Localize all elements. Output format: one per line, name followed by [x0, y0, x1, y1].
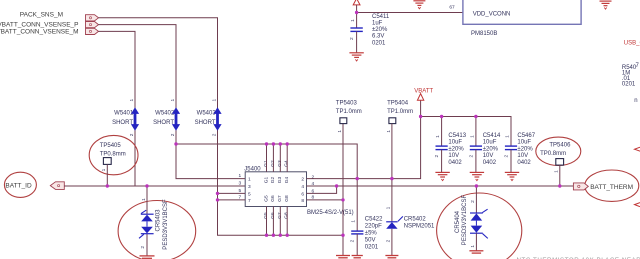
- highlight circle CR5404: [437, 193, 522, 259]
- wire pins 4-6 tie: [307, 186, 337, 193]
- svg-text:5: 5: [248, 191, 251, 197]
- svg-text:2: 2: [470, 200, 476, 203]
- junction C5413 rail: [440, 115, 443, 118]
- highlight circle CR5403: [118, 201, 196, 259]
- svg-text:2: 2: [312, 174, 315, 180]
- svg-text:50V: 50V: [365, 238, 376, 244]
- svg-text:4: 4: [301, 184, 304, 190]
- ground top right (cut): [600, 1, 612, 9]
- svg-text:TP5405: TP5405: [100, 143, 122, 149]
- ground top middle (cut): [413, 1, 425, 9]
- ground under C5467: [505, 172, 519, 180]
- wire J5400 bottom shield pins: [267, 207, 288, 236]
- ground bar under C5422: [352, 256, 363, 258]
- svg-text:1: 1: [469, 135, 475, 138]
- connector tag VBATT_CONN_VSENSE_P: [86, 22, 99, 28]
- svg-text:2: 2: [301, 177, 304, 183]
- svg-text:1: 1: [141, 198, 147, 201]
- junction pin5: [216, 192, 219, 195]
- junction VBATT caps rail: [419, 115, 422, 118]
- junction shield G3 top: [279, 142, 282, 145]
- svg-text:220pF: 220pF: [365, 224, 382, 230]
- junction CR5403 BATT_ID: [145, 184, 148, 187]
- svg-text:BATT_THERM: BATT_THERM: [590, 184, 633, 191]
- junction bus VBATT: [356, 177, 359, 180]
- wire J5400 top shield pins: [267, 144, 288, 172]
- svg-text:±5%: ±5%: [365, 231, 378, 237]
- svg-text:1: 1: [553, 170, 559, 173]
- node VBATT_CONN_VSENSE_P label: [0, 22, 79, 29]
- junction shield G2 top: [272, 142, 275, 145]
- test point TP5404: [386, 101, 413, 133]
- small text n right edge: [634, 98, 637, 104]
- svg-text:1: 1: [211, 99, 217, 102]
- wire TP5403 GND vertical: [342, 124, 344, 256]
- svg-text:0402: 0402: [517, 160, 531, 166]
- svg-text:±20%: ±20%: [517, 146, 533, 152]
- wire PACK_SNS_M to W5403 to GND rail: [99, 18, 344, 235]
- svg-text:2: 2: [349, 37, 355, 40]
- ground under C5414: [470, 172, 484, 180]
- svg-text:VBATT: VBATT: [414, 88, 433, 94]
- node BATT_ID label: [5, 183, 32, 190]
- wire VBATT caps rail: [421, 117, 511, 147]
- J5400 left pin names inside: [248, 177, 251, 204]
- svg-text:0402: 0402: [448, 160, 462, 166]
- junction TP5404 VBATT: [390, 177, 393, 180]
- svg-text:NSPM2051: NSPM2051: [404, 224, 435, 230]
- connector tag BATT_THERM: [573, 183, 588, 190]
- J5400 right pin numbers outside: [312, 174, 315, 200]
- J5400 inside shield names G5 G6 G7 G8: [263, 195, 290, 202]
- svg-text:G7: G7: [277, 195, 283, 202]
- svg-text:7: 7: [248, 198, 251, 204]
- node PACK_SNS_M label: [20, 12, 63, 19]
- svg-text:±20%: ±20%: [483, 146, 499, 152]
- highlight circle TP5406: [536, 137, 581, 165]
- svg-text:10uF: 10uF: [483, 140, 497, 146]
- svg-text:USB_C: USB_C: [624, 41, 640, 47]
- J5400 top shield pin designators G1-G4: [263, 160, 290, 167]
- svg-text:1: 1: [101, 168, 107, 171]
- svg-text:TP5403: TP5403: [336, 101, 358, 107]
- junction CR5404 therm: [475, 184, 478, 187]
- wire BATT_ID to pin 3: [64, 185, 245, 187]
- capacitor C5414: [468, 117, 501, 173]
- svg-text:0201: 0201: [365, 245, 379, 251]
- connector tag VBATT_CONN_VSENSE_M: [86, 28, 99, 34]
- svg-text:1: 1: [385, 206, 391, 209]
- node BATT_ID highlight ellipse: [4, 172, 36, 197]
- svg-text:2: 2: [350, 239, 356, 242]
- junction C5414 rail: [474, 115, 477, 118]
- connector J5400 BM25-4S/2-V(51): [244, 166, 353, 216]
- junction shield G6 rail: [272, 234, 275, 237]
- junction shield G4 top: [286, 142, 289, 145]
- J5400 inside shield names G1 G2 G3 G4: [263, 176, 290, 183]
- wire J5400 pin 7 stub: [218, 199, 246, 201]
- red tag mark right edge upper: [635, 147, 640, 151]
- svg-text:n: n: [634, 98, 637, 104]
- ground under CR5403: [140, 256, 155, 258]
- svg-text:G4: G4: [284, 176, 290, 183]
- svg-text:6: 6: [301, 191, 304, 197]
- svg-text:G1: G1: [263, 176, 269, 183]
- svg-text:6.3V: 6.3V: [372, 34, 384, 40]
- svg-text:10uF: 10uF: [448, 140, 462, 146]
- svg-text:3: 3: [248, 184, 251, 190]
- junction shield G7 rail: [279, 234, 282, 237]
- junction TP5406 therm: [558, 184, 561, 187]
- svg-text:67: 67: [449, 5, 455, 11]
- wire VBATT_CONN_VSENSE_P to W5402 to pin1: [99, 25, 246, 179]
- svg-text:1: 1: [337, 130, 343, 133]
- svg-text:VBATT_CONN_VSENSE_P: VBATT_CONN_VSENSE_P: [0, 22, 79, 29]
- svg-text:0201: 0201: [622, 81, 636, 87]
- svg-text:G2: G2: [270, 176, 276, 183]
- capacitor C5413: [434, 117, 467, 173]
- power symbol VBATT top (cut): [353, 0, 360, 13]
- svg-text:1: 1: [239, 173, 242, 179]
- svg-text:0201: 0201: [372, 40, 386, 46]
- jumper W5402 SHORT: [153, 99, 180, 137]
- svg-text:10uF: 10uF: [517, 140, 531, 146]
- svg-text:C5411: C5411: [372, 14, 390, 20]
- capacitor C5422: [350, 179, 384, 256]
- svg-text:0402: 0402: [483, 160, 497, 166]
- junction TP5405 BATT_ID: [106, 184, 109, 187]
- svg-text:10V: 10V: [448, 153, 459, 159]
- svg-text:BATT_ID: BATT_ID: [5, 183, 32, 190]
- wire J5400 pin 5 stub: [218, 192, 246, 194]
- cut-off gray text at bottom edge: [517, 257, 640, 259]
- svg-text:G3: G3: [277, 176, 283, 183]
- svg-text:CR5402: CR5402: [404, 217, 427, 223]
- svg-text:TP1.0mm: TP1.0mm: [336, 109, 362, 115]
- node BATT_THERM label: [590, 184, 633, 191]
- IC PM8150B box: [463, 0, 581, 37]
- jumper W5403 SHORT: [195, 99, 222, 137]
- ground under C5413: [435, 172, 449, 180]
- wire VDD_VCONN pin 67: [357, 12, 463, 14]
- svg-text:2: 2: [211, 133, 217, 136]
- svg-text:TP0.8mm: TP0.8mm: [540, 151, 566, 157]
- junction shield G5 rail: [265, 234, 268, 237]
- svg-text:W5401: W5401: [114, 111, 134, 117]
- svg-text:2: 2: [140, 246, 146, 249]
- svg-text:1: 1: [470, 245, 476, 248]
- wire VBATT rail pin2: [307, 100, 421, 178]
- svg-text:1: 1: [504, 135, 510, 138]
- svg-text:BM25-4S/2-V(51): BM25-4S/2-V(51): [307, 210, 354, 216]
- junction GND rail: [341, 234, 344, 237]
- svg-text:1: 1: [350, 19, 356, 22]
- svg-text:8: 8: [301, 198, 304, 204]
- J5400 right pin names inside: [301, 177, 304, 204]
- svg-text:CR5404: CR5404: [455, 210, 461, 233]
- svg-text:2: 2: [468, 155, 474, 158]
- node BATT_THERM highlight ellipse: [585, 170, 639, 201]
- svg-text:C5413: C5413: [448, 133, 466, 139]
- svg-text:2: 2: [170, 133, 176, 136]
- svg-text:SHORT: SHORT: [195, 120, 216, 126]
- TVS diode CR5403 PESD3V3V1BCSF: [139, 186, 169, 256]
- svg-text:W5402: W5402: [155, 111, 175, 117]
- test point TP5406: [540, 143, 571, 186]
- highlight circle TP5405: [89, 135, 138, 174]
- svg-text:2: 2: [385, 239, 391, 242]
- test point TP5405: [100, 143, 126, 186]
- svg-text:TP0.8mm: TP0.8mm: [100, 151, 126, 157]
- svg-text:2: 2: [503, 155, 509, 158]
- junction shield G1 top: [265, 142, 268, 145]
- svg-text:VBATT_CONN_VSENSE_M: VBATT_CONN_VSENSE_M: [0, 29, 79, 36]
- svg-text:PESD3V3V1BCSF: PESD3V3V1BCSF: [163, 199, 169, 250]
- junction pin7: [216, 198, 219, 201]
- ground under C5411: [349, 53, 363, 61]
- svg-text:SHORT: SHORT: [153, 120, 174, 126]
- node VBATT_CONN_VSENSE_M label: [0, 29, 79, 36]
- svg-text:CR5403: CR5403: [155, 209, 161, 232]
- svg-text:3: 3: [239, 181, 242, 187]
- svg-text:1: 1: [351, 220, 357, 223]
- svg-text:PM8150B: PM8150B: [471, 31, 497, 37]
- svg-text:10V: 10V: [483, 153, 494, 159]
- svg-text:C5422: C5422: [365, 217, 383, 223]
- svg-text:G5: G5: [263, 195, 269, 202]
- svg-text:C5414: C5414: [483, 133, 501, 139]
- svg-text:1: 1: [248, 177, 251, 183]
- svg-text:1: 1: [170, 99, 176, 102]
- capacitor C5467: [503, 133, 535, 173]
- svg-text:±20%: ±20%: [448, 146, 464, 152]
- junction C5411 VCONN: [355, 11, 358, 14]
- connector tag PACK_SNS_M: [86, 15, 99, 21]
- ground bar under CR5404: [469, 251, 483, 253]
- jumper W5401 SHORT: [112, 99, 139, 137]
- wire BATT_THERM net: [337, 185, 574, 187]
- svg-text:10V: 10V: [517, 153, 528, 159]
- zener diode CR5402 NSPM2051: [385, 124, 435, 256]
- svg-text:VDD_VCONN: VDD_VCONN: [473, 11, 511, 17]
- svg-text:SHORT: SHORT: [112, 120, 133, 126]
- junction pin4 therm: [335, 184, 338, 187]
- wire J5400 pin 8 to GND: [307, 199, 344, 201]
- svg-text:2: 2: [129, 133, 135, 136]
- svg-text:TP5406: TP5406: [549, 143, 571, 149]
- J5400 left pin numbers outside: [239, 173, 242, 200]
- junction VSENSE_P shield bus: [174, 142, 177, 145]
- svg-text:2: 2: [434, 155, 440, 158]
- svg-text:TP1.0mm: TP1.0mm: [387, 109, 413, 115]
- ground bar under CR5402: [385, 256, 398, 258]
- resistor R540x value text: [622, 63, 640, 87]
- TVS diode CR5404 PESD3V3V1BCSF: [455, 186, 488, 251]
- svg-text:1: 1: [435, 135, 441, 138]
- svg-text:PESD3V3V1BCSF: PESD3V3V1BCSF: [462, 194, 468, 245]
- wire shield bus to VBATT: [176, 144, 357, 179]
- svg-text:1: 1: [386, 130, 392, 133]
- svg-text:1uF: 1uF: [372, 21, 383, 27]
- svg-text:G6: G6: [270, 195, 276, 202]
- pin number 67: [449, 5, 455, 11]
- svg-text:TP5404: TP5404: [387, 101, 409, 107]
- test point TP5403: [336, 101, 362, 133]
- svg-text:W5403: W5403: [197, 111, 217, 117]
- net label USB_ (cut at edge): [624, 41, 640, 47]
- svg-text:1: 1: [129, 99, 135, 102]
- junction shield G8 rail: [286, 234, 289, 237]
- svg-text:PACK_SNS_M: PACK_SNS_M: [20, 12, 63, 19]
- power symbol VBATT: [414, 88, 433, 100]
- wire VBATT_CONN_VSENSE_M to W5401 to BATT_ID net: [99, 31, 136, 186]
- J5400 bottom shield pin designators G5-G8: [263, 212, 290, 219]
- red tag mark right edge lower: [635, 203, 640, 207]
- junction pin8 GND: [341, 198, 344, 201]
- svg-text:±20%: ±20%: [372, 27, 388, 33]
- connector tag BATT_ID: [50, 182, 64, 190]
- svg-text:G8: G8: [284, 195, 290, 202]
- svg-text:C5467: C5467: [517, 133, 535, 139]
- capacitor C5411: [349, 13, 390, 53]
- ground bar under TP5403 GND line: [336, 256, 350, 258]
